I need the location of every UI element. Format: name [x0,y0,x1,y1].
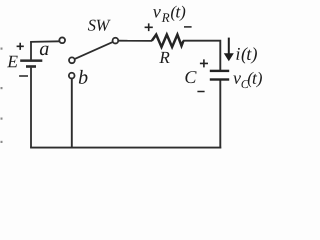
plus (battery) [17,43,24,50]
wire: top-left horizontal to contact a [30,40,59,43]
switch pivot circle [69,57,75,63]
plus (capacitor) [200,59,208,67]
label E [7,56,18,67]
label SW [88,20,111,31]
minus (battery) [19,75,28,77]
plus (resistor) [145,23,153,31]
capacitor C top plate [210,70,229,72]
wire: bottom horizontal [30,147,221,149]
wire: resistor to top-right corner, down to capacitor [183,41,220,71]
label vR(t) [153,6,185,22]
wire: right contact to resistor [118,40,152,42]
battery E short plate (-) [26,65,36,68]
wire: battery bottom down [30,68,32,148]
capacitor C bottom plate [210,78,229,80]
wire: battery top to top-left corner [30,42,32,60]
wire: contact b down to bottom wire [71,78,73,148]
minus (capacitor) [197,91,204,93]
battery E long plate (+) [20,59,42,62]
current arrow i(t) shaft [228,38,230,55]
right contact circle [113,38,119,44]
label i(t) [236,47,257,63]
current arrow head [224,53,234,61]
label b [79,70,88,84]
stray page marks (left edge) [1,48,3,144]
wire: capacitor bottom to bottom-right corner [219,81,221,149]
switch blade SW [75,42,113,59]
label C [185,71,196,83]
contact a circle [59,37,65,43]
label vC(t) [233,72,262,88]
label a [40,46,49,56]
minus (resistor) [184,26,192,28]
resistor R zigzag [152,35,184,47]
contact b circle [69,73,75,79]
label R [159,52,169,63]
